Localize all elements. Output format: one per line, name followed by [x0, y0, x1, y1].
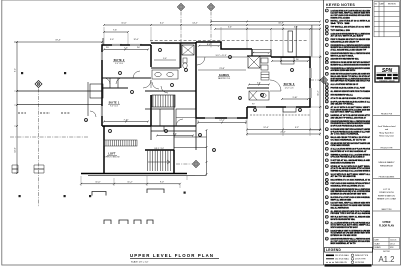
svg-text:12'-6": 12'-6": [133, 39, 138, 41]
extension line: [245, 120, 247, 124]
svg-text:8: 8: [326, 53, 327, 55]
svg-text:6'-8": 6'-8": [173, 133, 177, 135]
hall wall east: [173, 95, 175, 150]
grid bubble D: [321, 77, 328, 84]
suite3 closet: [281, 58, 294, 65]
closet divider a: [109, 78, 111, 88]
project address: [377, 189, 396, 201]
svg-text:LOT 13: LOT 13: [383, 189, 391, 191]
svg-text:5: 5: [326, 33, 327, 35]
entry door: [90, 111, 96, 117]
svg-text:18 OF FLOOR PROVIDE SOLID BLOC: 18 OF FLOOR PROVIDE SOLID BLOCKING: [331, 126, 364, 128]
svg-text:AND CEILING TYP INSTALL 2X6 ST: AND CEILING TYP INSTALL 2X6 STUDS AT: [331, 116, 367, 119]
window w3: [310, 68, 312, 78]
svg-text:KEYED NOTES: KEYED NOTES: [326, 3, 355, 7]
svg-text:GAMES: GAMES: [219, 74, 229, 77]
revision table: [374, 2, 400, 37]
svg-text:16: 16: [326, 94, 328, 96]
svg-text:PROJECT TYPE: PROJECT TYPE: [381, 148, 393, 150]
deck post line: [87, 82, 89, 116]
bath top wall: [247, 55, 271, 57]
bath wall v: [179, 43, 181, 68]
svg-text:GUARDRAIL WITH BALUSTERS AT 4: GUARDRAIL WITH BALUSTERS AT 4 OC: [331, 184, 365, 187]
games top int dim: [198, 45, 220, 47]
bath dim line: [154, 59, 176, 61]
extension line: [309, 30, 311, 57]
client name block: [378, 125, 396, 138]
svg-text:14R @ 7 3/4": 14R @ 7 3/4": [154, 148, 164, 150]
suite2 door: [133, 71, 140, 78]
reference dot: [19, 195, 21, 197]
stair treads: [148, 150, 171, 171]
svg-text:1/4"=1': 1/4"=1': [390, 243, 396, 245]
window W13: [227, 117, 237, 118]
suite1 dim: [103, 121, 149, 123]
window W4: [130, 44, 140, 45]
suite3 int dim: [281, 98, 309, 100]
hall treads: [153, 95, 173, 107]
svg-text:TYP INSTALL 2X6: TYP INSTALL 2X6: [331, 29, 351, 32]
left top dim: [14, 41, 103, 43]
svg-text:AT ALL GARAGE WALLS AND CEILIN: AT ALL GARAGE WALLS AND CEILING TYP: [331, 49, 367, 52]
svg-text:WINDOW TYPE: WINDOW TYPE: [355, 255, 369, 257]
svg-text:Jack Walterscheid: Jack Walterscheid: [378, 125, 396, 128]
svg-text:4: 4: [160, 50, 161, 52]
overall left dimension: [16, 41, 18, 174]
svg-text:34 TO 38: 34 TO 38: [331, 22, 352, 25]
reference dot: [184, 192, 186, 194]
footing symbol: [147, 189, 164, 193]
svg-text:PROVIDE SOLID BLOCKING AT ALL: PROVIDE SOLID BLOCKING AT ALL POINT: [331, 87, 366, 90]
svg-text:3: 3: [110, 131, 111, 133]
lavatory: [261, 65, 268, 70]
extension line: [179, 184, 181, 188]
shower hatch: [248, 56, 260, 68]
deck upper edge: [17, 90, 102, 92]
suite3 bottom dim: [246, 129, 321, 131]
svg-text:SHT NO: SHT NO: [383, 251, 390, 253]
suite3 closet dim: [271, 60, 309, 62]
svg-text:9: 9: [292, 70, 293, 72]
svg-text:37: 37: [326, 222, 328, 224]
hall wall: [145, 90, 196, 92]
svg-text:18: 18: [239, 98, 241, 100]
svg-text:BALUSTERS AT 4 OC MAX HANDRAIL: BALUSTERS AT 4 OC MAX HANDRAIL AT 34: [331, 179, 371, 182]
extension line: [14, 172, 17, 174]
stair direction arrow: [148, 160, 170, 164]
svg-text:10.21.05: 10.21.05: [390, 239, 396, 241]
svg-text:TEMPERED GLASS REQD AT ALL LOC: TEMPERED GLASS REQD AT ALL LOCATIONS WIT…: [331, 169, 371, 172]
svg-text:6: 6: [132, 92, 133, 94]
grid centerline E: [176, 163, 192, 165]
svg-text:3: 3: [326, 26, 327, 28]
svg-text:12'-4": 12'-4": [263, 127, 269, 129]
svg-text:34: 34: [326, 203, 328, 205]
svg-text:RIVER'S WAY DR.: RIVER'S WAY DR.: [378, 194, 396, 197]
svg-text:29: 29: [326, 174, 328, 176]
loft top wall: [102, 125, 196, 127]
svg-text:SINGLE FAMILY: SINGLE FAMILY: [378, 161, 395, 164]
title block column left border: [372, 0, 374, 265]
sheet data table: [374, 238, 400, 250]
closet divider b: [117, 78, 119, 88]
grid bubble 1: [35, 81, 42, 88]
bath2 vanity: [249, 91, 269, 100]
grid centerline C: [210, 12, 212, 49]
extension line: [310, 129, 322, 131]
window w4: [310, 88, 312, 98]
svg-text:11: 11: [261, 95, 263, 97]
svg-text:WITH WEATHERSTRIP SEAL ALL: WITH WEATHERSTRIP SEAL ALL: [331, 93, 354, 96]
svg-text:17: 17: [326, 98, 328, 100]
svg-text:EXTERIOR 50 CFM MIN DRYER: EXTERIOR 50 CFM MIN DRYER: [331, 235, 358, 237]
closet double doors: [104, 78, 122, 84]
svg-text:22X30 MIN WITH WEATHERSTRIP SE: 22X30 MIN WITH WEATHERSTRIP SEAL: [331, 58, 360, 61]
svg-text:18: 18: [326, 101, 328, 103]
svg-text:ACCESS 22X30 MIN WITH: ACCESS 22X30 MIN WITH: [331, 69, 356, 72]
svg-text:11'-2": 11'-2": [318, 90, 320, 95]
window sill top b: [130, 43, 142, 45]
top sub dim a: [103, 31, 129, 33]
reference dot: [21, 72, 23, 74]
extension line: [103, 27, 105, 45]
roof dash b: [40, 112, 50, 114]
bath2 hatch: [249, 91, 257, 100]
suite1 door: [143, 80, 151, 88]
svg-text:GARAGE WALLS AND CEILING TYP: GARAGE WALLS AND CEILING TYP: [331, 40, 360, 43]
svg-text:2: 2: [326, 21, 327, 23]
bay wall a: [295, 26, 297, 57]
keyed notes panel left border: [323, 0, 325, 265]
svg-text:23: 23: [326, 137, 328, 139]
svg-text:9: 9: [326, 59, 327, 61]
svg-text:HEBER CITY, UTAH: HEBER CITY, UTAH: [377, 198, 396, 201]
svg-text:12: 12: [326, 74, 328, 76]
legend footer bar: [325, 264, 372, 266]
svg-text:AT 4 OC MAX HANDRAIL: AT 4 OC MAX HANDRAIL: [331, 133, 360, 136]
svg-text:14: 14: [326, 88, 328, 90]
svg-text:REVISION: REVISION: [388, 4, 396, 6]
svg-text:AT 16 OC WITH R-21 BATT: AT 16 OC WITH R-21 BATT: [331, 35, 365, 38]
svg-text:PROVIDE TYPE X GYP BD AT ALL G: PROVIDE TYPE X GYP BD AT ALL GARAGE: [331, 212, 371, 215]
footing symbol: [147, 220, 153, 224]
svg-text:5'-0": 5'-0": [163, 58, 167, 60]
bay wall b: [311, 25, 313, 57]
shower stall: [248, 56, 260, 68]
svg-text:FLOOR PLAN: FLOOR PLAN: [379, 225, 394, 228]
toilet: [261, 58, 268, 63]
bath top thin: [252, 49, 271, 51]
svg-text:OPEN TO BELOW: OPEN TO BELOW: [104, 157, 119, 159]
svg-text:11'-0": 11'-0": [95, 182, 100, 184]
svg-text:WALL BELOW: WALL BELOW: [335, 261, 347, 264]
svg-text:DETECTOR HARDWIRED WITH BATTER: DETECTOR HARDWIRED WITH BATTERY BACKUP: [331, 226, 359, 229]
roof dash a: [18, 112, 26, 114]
svg-text:17'-2": 17'-2": [219, 120, 225, 122]
extension line: [319, 27, 321, 55]
svg-text:19'-4": 19'-4": [55, 40, 61, 42]
deck edge line: [88, 174, 195, 176]
walk-in closet: [176, 109, 196, 126]
legend items: [326, 254, 369, 264]
top sub dim b: [214, 28, 321, 30]
window W3: [112, 44, 120, 45]
extension line: [186, 176, 188, 180]
right dimension: [319, 55, 321, 131]
svg-text:5: 5: [186, 70, 187, 72]
svg-text:9'-2": 9'-2": [295, 127, 299, 129]
sink a: [155, 72, 161, 76]
svg-text:35: 35: [326, 211, 328, 213]
svg-text:WITH R-21 BATT INSUL: WITH R-21 BATT INSUL: [331, 54, 355, 57]
window W9: [309, 88, 310, 98]
svg-text:AT 34 TO 38 ABOVE NOSING ATTIC: AT 34 TO 38 ABOVE NOSING ATTIC ACCESS: [331, 97, 371, 100]
reference dot: [89, 195, 91, 197]
extension line: [282, 109, 284, 136]
svg-text:28: 28: [326, 166, 328, 168]
svg-text:24: 24: [326, 143, 328, 145]
deck step symbol b: [34, 165, 44, 173]
games ref line: [196, 56, 247, 58]
svg-text:2X6 STUD WALL: 2X6 STUD WALL: [335, 254, 349, 257]
svg-text:16'-8": 16'-8": [278, 23, 284, 25]
closet wall upper: [102, 77, 151, 79]
svg-text:UPPER LEVEL FLOOR PLAN: UPPER LEVEL FLOOR PLAN: [130, 253, 214, 258]
extension line: [310, 56, 322, 58]
svg-text:25: 25: [326, 149, 328, 151]
svg-text:and: and: [385, 129, 388, 131]
svg-text:11'-6": 11'-6": [121, 23, 126, 25]
window W11: [286, 106, 296, 107]
center top wall: [151, 42, 196, 44]
svg-text:2X4 STUD WALL: 2X4 STUD WALL: [335, 258, 349, 261]
svg-text:ALL WINDOW SIZES WITH MFR PRIO: ALL WINDOW SIZES WITH MFR PRIOR TO FRAMI…: [331, 90, 371, 93]
svg-text:7: 7: [172, 85, 173, 87]
extension line: [197, 120, 199, 124]
svg-text:WEATHERSTRIP SEAL ALL PENETRAT: WEATHERSTRIP SEAL ALL PENETRATIONS SMOKE…: [331, 63, 371, 66]
svg-text:9'-0" CLG: 9'-0" CLG: [115, 63, 123, 65]
svg-text:2: 2: [120, 73, 121, 75]
svg-text:21: 21: [326, 121, 328, 123]
window w2: [100, 106, 102, 116]
svg-text:LEGEND: LEGEND: [326, 248, 341, 252]
bath2 wall: [247, 87, 269, 89]
grid bubble C: [208, 4, 215, 11]
footing symbol: [104, 220, 111, 224]
svg-text:SHEET TITLE: SHEET TITLE: [381, 209, 391, 211]
wic wall: [145, 108, 174, 110]
svg-text:W7: W7: [252, 104, 255, 106]
svg-text:LOFT: LOFT: [108, 153, 116, 156]
svg-text:SUITE 3: SUITE 3: [284, 83, 295, 86]
svg-text:3'-6": 3'-6": [257, 82, 261, 84]
extension line: [309, 109, 311, 136]
extension line: [80, 176, 82, 186]
hall lower wall: [151, 130, 196, 132]
suite3 walls: [247, 57, 310, 107]
svg-text:36: 36: [326, 217, 328, 219]
svg-text:VERIFY ALL WINDOW SIZES: VERIFY ALL WINDOW SIZES: [331, 198, 352, 201]
svg-text:11'-2": 11'-2": [127, 182, 132, 184]
svg-text:RESIDENCE: RESIDENCE: [380, 165, 393, 167]
svg-text:7'-6": 7'-6": [124, 47, 128, 49]
roof dash c: [61, 112, 70, 114]
extension line: [282, 27, 284, 57]
svg-text:VAULTED CLG: VAULTED CLG: [218, 77, 231, 80]
svg-text:CFM MIN DRYER: CFM MIN DRYER: [331, 145, 351, 147]
svg-text:SUITE 2: SUITE 2: [114, 59, 125, 62]
closet rod: [281, 60, 294, 62]
loft walls: [81, 126, 187, 174]
svg-text:Heber City, Utah: Heber City, Utah: [379, 135, 394, 138]
svg-text:21: 21: [213, 150, 215, 152]
keyed notes underline: [326, 6, 371, 8]
title underline: [130, 258, 219, 260]
bath east wall: [270, 50, 272, 58]
svg-text:14'-2": 14'-2": [192, 23, 198, 25]
window W2: [101, 106, 102, 116]
closet shelf: [176, 117, 196, 119]
grid centerline B: [180, 12, 182, 45]
svg-text:AND CEILING TYP INSTALL: AND CEILING TYP INSTALL: [331, 103, 355, 106]
extension line: [319, 132, 321, 136]
svg-text:MAX HANDRAIL AT 34 TO: MAX HANDRAIL AT 34 TO: [331, 242, 356, 245]
svg-text:ALL LOCATIONS WITHIN 18 OF: ALL LOCATIONS WITHIN 18 OF: [331, 83, 359, 86]
loft railing: [104, 140, 137, 146]
svg-text:13: 13: [326, 84, 328, 86]
window sill top a: [112, 43, 122, 45]
grid bubble B: [178, 4, 185, 11]
bath int dim: [252, 52, 270, 54]
deck edge ext: [195, 174, 207, 176]
toilet: [183, 58, 187, 68]
extension line: [127, 33, 129, 45]
hall stair box: [152, 95, 175, 107]
svg-text:9'-0" CLG: 9'-0" CLG: [110, 106, 118, 108]
window W8: [309, 68, 310, 78]
games room walls: [196, 42, 252, 118]
grid bubble E: [193, 161, 200, 168]
bath wall h: [151, 67, 180, 69]
svg-text:WITH MFR PRIOR TO FRAMING SEE: WITH MFR PRIOR TO FRAMING SEE STRUCT FOR: [331, 80, 371, 83]
svg-text:3'-0": 3'-0": [110, 39, 114, 41]
svg-text:7'-6": 7'-6": [113, 30, 117, 32]
window W1: [101, 52, 102, 60]
sink b: [167, 72, 173, 76]
hall dim: [156, 135, 194, 137]
svg-text:1: 1: [326, 10, 327, 12]
bath vanity: [152, 70, 178, 79]
deck step symbol a: [12, 165, 18, 173]
svg-text:SEAL ALL PENETRATIONS: SEAL ALL PENETRATIONS: [331, 206, 350, 209]
extension line: [246, 109, 248, 136]
window w1: [100, 52, 102, 60]
svg-text:26: 26: [326, 154, 328, 156]
grid centerline F: [10, 136, 88, 138]
svg-text:NOSING ATTIC ACCESS: NOSING ATTIC ACCESS: [331, 16, 351, 19]
svg-text:10: 10: [326, 62, 328, 64]
svg-text:33: 33: [326, 197, 328, 199]
svg-text:32: 32: [326, 189, 328, 191]
svg-text:6: 6: [326, 39, 327, 41]
svg-text:27: 27: [326, 160, 328, 162]
svg-text:15: 15: [254, 110, 256, 112]
extension line: [220, 27, 222, 42]
svg-text:PROJECT FOR: PROJECT FOR: [381, 114, 393, 116]
svg-text:W3: W3: [106, 47, 109, 49]
grid centerline 1: [38, 89, 40, 208]
reference dot: [64, 195, 66, 197]
svg-text:10: 10: [85, 120, 87, 122]
svg-text:38: 38: [326, 230, 328, 232]
landing edge b: [174, 147, 207, 149]
title block divider: [373, 210, 400, 212]
title block divider: [373, 115, 400, 117]
svg-text:8'-6": 8'-6": [207, 44, 211, 46]
svg-text:10'-2" x 21'-8": 10'-2" x 21'-8": [215, 55, 226, 57]
extension line: [310, 106, 322, 108]
svg-text:9'-10": 9'-10": [293, 97, 298, 99]
svg-text:SMOKE DETECTOR HARDWIRED WITH: SMOKE DETECTOR HARDWIRED WITH: [331, 161, 356, 164]
svg-text:6'-2": 6'-2": [160, 23, 164, 25]
svg-text:14: 14: [299, 110, 301, 112]
window W10: [256, 106, 266, 107]
extension line: [14, 104, 17, 106]
games bottom dim: [197, 122, 247, 124]
landing edge a: [174, 136, 207, 138]
suite2/suite1 exterior walls: [102, 45, 151, 126]
svg-text:39: 39: [326, 238, 328, 240]
extension line: [146, 176, 148, 186]
bath2 sink: [261, 94, 266, 98]
wic divider: [159, 109, 161, 126]
grid centerline D: [310, 79, 320, 81]
shower diag: [182, 45, 194, 55]
extension line: [270, 30, 272, 50]
deck lower edge: [17, 104, 102, 106]
games bath door: [197, 57, 205, 65]
svg-text:Mary Spenther: Mary Spenther: [379, 131, 394, 134]
dashed roof line upper: [150, 40, 308, 42]
svg-text:22: 22: [326, 129, 328, 131]
landing dim: [206, 129, 208, 175]
roof dash under suite3: [250, 114, 310, 116]
svg-text:DOOR TYPE: DOOR TYPE: [355, 259, 366, 261]
svg-text:SUITE 1: SUITE 1: [109, 102, 120, 105]
bath door arcs: [152, 82, 168, 93]
SPN logo box: [375, 66, 399, 83]
svg-text:5'-4": 5'-4": [228, 27, 232, 29]
wic door: [176, 119, 183, 126]
svg-text:SCALE: 1/4" = 1'-0": SCALE: 1/4" = 1'-0": [131, 261, 149, 264]
suite3 bottom dim 2: [246, 133, 321, 135]
extension line: [14, 125, 17, 127]
svg-text:19: 19: [326, 107, 328, 109]
extension line: [113, 178, 115, 186]
svg-text:R-21 BATT INSUL VERIFY ALL WIN: R-21 BATT INSUL VERIFY ALL WINDOW: [331, 111, 363, 114]
hall west stub: [150, 126, 152, 140]
wall stub above: [102, 38, 104, 45]
overall top dimension: [103, 24, 321, 26]
bottom dimension: [80, 183, 181, 185]
bath wall v2: [251, 49, 253, 56]
extension line: [246, 27, 248, 49]
svg-text:20: 20: [326, 115, 328, 117]
svg-text:7: 7: [326, 45, 327, 47]
footing symbol: [134, 220, 141, 224]
bath divider wall: [180, 43, 182, 68]
legend header: [325, 248, 373, 253]
